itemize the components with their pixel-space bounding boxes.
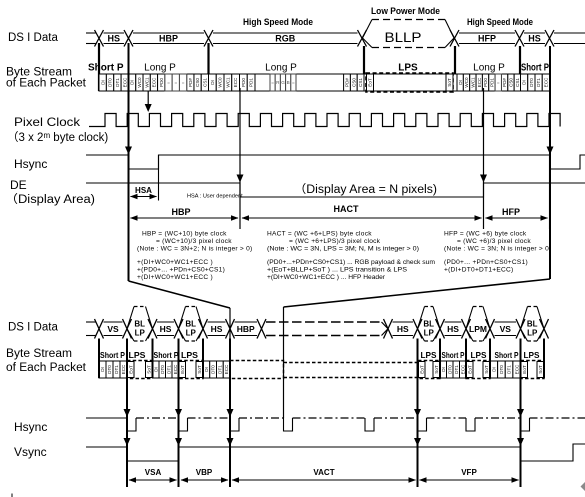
VACT measurement arrow: [232, 479, 416, 481]
svg-text:HBP: HBP: [237, 324, 255, 334]
svg-text:CS0: CS0: [509, 78, 514, 87]
bus crossover X4: [358, 30, 367, 47]
svg-text:DI: DI: [153, 367, 158, 372]
svg-text:(PD0+...+PDn+CS0+CS1) ... RGB: (PD0+...+PDn+CS0+CS1) ... RGB payload & …: [267, 259, 436, 266]
svg-text:HFP = (WC +6) byte clock: HFP = (WC +6) byte clock: [444, 231, 527, 238]
svg-text:+(EoT+BLLP+SoT ) ... LPS trans: +(EoT+BLLP+SoT ) ... LPS transition & LP…: [267, 267, 408, 274]
bus segment HS (lower 3): [393, 321, 414, 323]
svg-text:HFP: HFP: [502, 207, 520, 217]
svg-text:DT1: DT1: [536, 78, 541, 87]
bus segment HS (lower 2): [208, 321, 226, 323]
svg-text:ECC: ECC: [122, 77, 127, 87]
svg-text:ECC: ECC: [543, 77, 548, 87]
svg-text:PD0: PD0: [483, 78, 488, 87]
svg-text:CS1: CS1: [358, 78, 363, 87]
bus segment HS (lower 1): [157, 321, 174, 323]
svg-text:SoT: SoT: [146, 365, 151, 374]
byte stream row 2 cells: [99, 361, 106, 378]
svg-text:LPS: LPS: [524, 351, 541, 360]
svg-text:EoT: EoT: [522, 365, 527, 374]
svg-text:ECC: ECC: [233, 77, 238, 87]
wire measurement vertical x=417.5 (VFP start): [417, 339, 419, 488]
svg-text:PD0: PD0: [241, 78, 246, 87]
wire HSA right tick x=158.5: [158, 155, 160, 201]
bus2 crossover 127: [123, 319, 132, 339]
svg-text:PD#: PD#: [188, 78, 193, 87]
svg-text:DI: DI: [204, 367, 209, 372]
svg-text:(PD0+... +PDn+CS0+CS1): (PD0+... +PDn+CS0+CS1): [444, 259, 528, 266]
bus crossover X1: [95, 30, 104, 47]
wire bus2 vertical x=203: [202, 339, 204, 379]
svg-text:=: =: [182, 80, 185, 85]
svg-text:EoT: EoT: [467, 365, 472, 374]
bus stub left (upper): [86, 32, 96, 34]
svg-text:+(PD0+... +PDn+CS0+CS1): +(PD0+... +PDn+CS0+CS1): [137, 267, 225, 274]
svg-text:DS I Data: DS I Data: [8, 32, 58, 44]
svg-text:LP: LP: [527, 328, 538, 337]
svg-text:HS: HS: [211, 324, 223, 334]
svg-text:BL: BL: [423, 319, 434, 328]
bus2 crossover 520.5: [516, 319, 525, 339]
svg-text:=: =: [292, 80, 295, 85]
svg-text:VFP: VFP: [461, 468, 477, 477]
svg-text:Short P: Short P: [88, 63, 124, 74]
wire bus2 vertical x=544: [543, 339, 545, 379]
svg-text:EoT: EoT: [180, 365, 185, 374]
wire packet boundary x=550 (to funnel): [549, 46, 551, 279]
svg-text:Hsync: Hsync: [14, 420, 47, 434]
svg-text:DE: DE: [10, 178, 27, 192]
svg-text:+(DI+WC0+WC1+ECC ) ... HFP Hea: +(DI+WC0+WC1+ECC ) ... HFP Header: [267, 274, 386, 281]
svg-text:ECC: ECC: [477, 77, 482, 87]
HACT measurement arrow: [242, 217, 482, 219]
svg-text:= (WC +6+LPS)/3 pixel clock: = (WC +6+LPS)/3 pixel clock: [289, 238, 381, 245]
wire bus2 vertical x=152.5: [152, 339, 154, 379]
cell EoT (upper LPS): [367, 74, 374, 91]
svg-text:DI: DI: [441, 367, 446, 372]
svg-text:VBP: VBP: [196, 468, 213, 477]
bus2 crossover 490: [486, 319, 495, 339]
bus2 crossover 178.5: [174, 319, 183, 339]
bus2 crossover 388: [384, 319, 393, 339]
svg-text:PD#: PD#: [345, 78, 350, 87]
bus crossover X3: [204, 30, 213, 47]
funnel right diagonal: [284, 279, 551, 307]
svg-text:PD1: PD1: [249, 78, 254, 87]
VBP measurement arrow: [181, 479, 228, 481]
bus crossover X6: [515, 30, 524, 47]
svg-text:SoT: SoT: [197, 365, 202, 374]
wire measurement vertical x=178.5 (VSA end): [178, 339, 180, 488]
svg-text:= (WC +6)/3 pixel clock: = (WC +6)/3 pixel clock: [457, 238, 531, 245]
svg-text:=: =: [167, 80, 170, 85]
bus segment BL LP (4): [521, 307, 528, 342]
svg-text:Short P: Short P: [100, 351, 125, 360]
svg-text:BL: BL: [527, 319, 538, 328]
HFP measurement arrow: [486, 217, 548, 219]
svg-text:BL: BL: [134, 319, 145, 328]
svg-text:HBP: HBP: [159, 33, 178, 43]
svg-text:SoT: SoT: [434, 365, 439, 374]
bus2 crossover 230: [226, 319, 235, 339]
svg-text:HSA : User dependent: HSA : User dependent: [187, 194, 243, 200]
bus segment HS (lower 4): [445, 321, 462, 323]
HSA measurement arrow: [131, 196, 157, 198]
pixel clock waveform: [89, 114, 560, 127]
svg-text:DT0: DT0: [160, 365, 165, 374]
svg-text:B: B: [287, 80, 290, 85]
svg-text:HS: HS: [107, 33, 120, 43]
svg-text:ECC: ECC: [460, 364, 465, 374]
bus open section (dashed continuation): [266, 321, 382, 323]
svg-text:PD0: PD0: [159, 78, 164, 87]
svg-text:HS: HS: [397, 324, 409, 334]
svg-text:=: =: [497, 80, 500, 85]
svg-text:DT0: DT0: [529, 78, 534, 87]
bus2 crossover 440: [436, 319, 445, 339]
wire packet boundary x=455: [454, 46, 456, 74]
byte stream row 1 cells: [99, 74, 550, 91]
svg-text:Long P: Long P: [473, 63, 505, 74]
svg-text:Short P: Short P: [442, 351, 465, 360]
svg-text:of Each Packet: of Each Packet: [6, 362, 87, 374]
svg-text:WC0: WC0: [137, 77, 142, 88]
svg-text:DT0: DT0: [499, 365, 504, 374]
svg-text:WC1: WC1: [225, 77, 230, 88]
Hsync waveform (upper): [86, 155, 585, 169]
DE waveform: [86, 183, 585, 197]
svg-text:DT0: DT0: [447, 365, 452, 374]
svg-text:(Note : WC = 3N+2; N is integ: (Note : WC = 3N+2; N is integer > 0): [137, 246, 252, 253]
svg-text:+(DI+WC0+WC1+ECC ): +(DI+WC0+WC1+ECC ): [137, 259, 213, 266]
Hsync waveform (lower): [86, 417, 127, 419]
svg-text:HBP: HBP: [171, 207, 190, 217]
svg-text:DI: DI: [130, 80, 135, 85]
svg-text:HS: HS: [160, 324, 172, 334]
svg-text:LPM: LPM: [469, 324, 487, 334]
wire packet boundary x=364: [363, 46, 365, 74]
svg-text:DI: DI: [100, 367, 105, 372]
svg-text:Low Power Mode: Low Power Mode: [371, 6, 440, 16]
svg-text:HBP = (WC+10) byte clock: HBP = (WC+10) byte clock: [142, 231, 227, 238]
decorative gray cursor bottom right: [581, 482, 585, 492]
svg-text:DI: DI: [491, 367, 496, 372]
wire bus2 vertical x=466: [465, 339, 467, 379]
svg-text:DI: DI: [210, 80, 215, 85]
svg-text:HS: HS: [447, 324, 459, 334]
wire packet boundary x=208.5: [207, 43, 209, 74]
wire byte-to-clock arrow x=148: [147, 91, 149, 104]
svg-text:Pixel Clock: Pixel Clock: [14, 115, 81, 129]
bus segment RGB: [213, 32, 358, 34]
svg-text:DS I Data: DS I Data: [8, 322, 58, 334]
svg-text:DT0: DT0: [108, 78, 113, 87]
svg-text:HS: HS: [528, 33, 541, 43]
bus segment BLLP: [363, 20, 455, 48]
svg-text:DT1: DT1: [217, 365, 222, 374]
svg-text:WC1: WC1: [144, 77, 149, 88]
wire measurement vertical x=230 (VACT start): [229, 339, 231, 488]
VSA measurement arrow: [129, 479, 177, 481]
bus segment LPM: [466, 307, 473, 342]
svg-text:WC1: WC1: [470, 77, 475, 88]
bus2 crossover 152.5: [148, 319, 157, 339]
svg-text:HSA: HSA: [135, 186, 152, 195]
svg-text:VACT: VACT: [313, 468, 334, 477]
svg-text:ECC: ECC: [173, 364, 178, 374]
svg-text:HACT = (WC +6+LPS) byte clock: HACT = (WC +6+LPS) byte clock: [267, 231, 372, 238]
svg-text:+(DI+DT0+DT1+ECC): +(DI+DT0+DT1+ECC): [444, 267, 513, 274]
arrowhead onto Hsync at x=128.5: [125, 147, 132, 155]
svg-text:+(DI+WC0+WC1+ECC ): +(DI+WC0+WC1+ECC ): [137, 274, 213, 281]
bus segment BL LP (2): [179, 307, 186, 342]
svg-text:CS1: CS1: [515, 78, 520, 87]
wire bus2 vertical x=440: [439, 339, 441, 379]
wire packet boundary x=99: [98, 43, 100, 91]
svg-text:LPS: LPS: [181, 351, 199, 360]
svg-text:= (WC+10)/3 pixel clock: = (WC+10)/3 pixel clock: [156, 238, 232, 245]
svg-text:EoT: EoT: [368, 78, 373, 87]
wire packet boundary x=520: [519, 46, 521, 74]
wire measurement vertical x=483.5: [483, 88, 485, 229]
bus2 crossover 261.5: [257, 319, 266, 339]
svg-text:CS0: CS0: [195, 78, 200, 87]
svg-text:LP: LP: [424, 328, 435, 337]
svg-text:DI: DI: [100, 80, 105, 85]
svg-text:HACT: HACT: [334, 204, 359, 214]
svg-text:DT1: DT1: [115, 78, 120, 87]
svg-text:EoT: EoT: [128, 365, 133, 374]
bus segment HBP: [133, 32, 204, 34]
svg-text:LP: LP: [186, 328, 197, 337]
Vsync waveform: [86, 444, 585, 461]
LPS dashed box (upper): [366, 73, 453, 92]
arrowhead onto DE at x=240: [237, 175, 244, 183]
svg-text:DT1: DT1: [114, 365, 119, 374]
bus2 crossover 466: [462, 319, 471, 339]
bus segment HS (second): [524, 32, 545, 34]
bus stub left (lower): [86, 321, 96, 323]
bus crossover X2: [124, 30, 133, 47]
svg-text:CS1: CS1: [202, 78, 207, 87]
VFP measurement arrow: [420, 479, 519, 481]
bus crossover X7: [545, 30, 554, 47]
svg-text:G: G: [281, 80, 285, 85]
svg-text:SoT: SoT: [484, 365, 489, 374]
wire bus2 vertical x=490: [489, 339, 491, 379]
bus crossover X5: [450, 30, 459, 47]
svg-text:DT0: DT0: [107, 365, 112, 374]
wire packet boundary x=128.5 (to funnel): [128, 43, 130, 281]
bus2 crossover 99: [95, 319, 104, 339]
wire packet boundary x=128.5 overlay through byte row: [128, 74, 130, 91]
svg-text:LPS: LPS: [398, 63, 418, 74]
svg-text:ECC: ECC: [514, 364, 519, 374]
svg-text:ECC: ECC: [224, 364, 229, 374]
decorative tick bottom left: [11, 494, 13, 497]
svg-text:PD#: PD#: [502, 78, 507, 87]
bus segment BL LP (3): [418, 307, 425, 342]
wire measurement vertical x=127 (VSA start): [126, 339, 128, 488]
svg-text:PD1: PD1: [490, 78, 495, 87]
bus stub right (upper): [554, 32, 585, 34]
svg-text:LPS: LPS: [129, 351, 147, 360]
bus segment VS (first): [104, 321, 123, 323]
svg-text:DT0: DT0: [211, 365, 216, 374]
svg-text:Hsync: Hsync: [14, 157, 47, 171]
cell SoT (upper LPS): [446, 74, 453, 91]
svg-text:=: =: [174, 80, 177, 85]
svg-text:ECC: ECC: [152, 77, 157, 87]
svg-text:RGB: RGB: [275, 33, 296, 43]
bus2 crossover 417.5: [413, 319, 422, 339]
svg-text:（Display Area): （Display Area): [5, 193, 95, 206]
svg-text:VSA: VSA: [145, 468, 162, 477]
svg-text:DI: DI: [522, 80, 527, 85]
svg-text:VS: VS: [107, 324, 119, 334]
wire measurement vertical x=240: [239, 88, 241, 229]
funnel left diagonal: [129, 281, 231, 308]
HBP measurement arrow: [131, 217, 239, 219]
svg-text:(Note : WC = 3N, LPS = 3M; N,: (Note : WC = 3N, LPS = 3M; N, M is integ…: [267, 246, 419, 253]
svg-text:DI: DI: [458, 80, 463, 85]
wire measurement vertical x=520.5 (VFP end): [520, 339, 522, 488]
svg-text:WC0: WC0: [464, 77, 469, 88]
svg-text:Short P: Short P: [521, 63, 549, 74]
svg-text:WC0: WC0: [218, 77, 223, 88]
svg-text:DT1: DT1: [454, 365, 459, 374]
svg-text:Long P: Long P: [265, 63, 297, 74]
svg-text:Short P: Short P: [154, 351, 179, 360]
bus segment HBP (lower): [235, 321, 258, 323]
svg-text:HFP: HFP: [478, 33, 496, 43]
svg-text:Byte Stream: Byte Stream: [6, 348, 72, 360]
svg-text:CS0: CS0: [351, 78, 356, 87]
svg-text:(Note : WC = 3N; N is integer: (Note : WC = 3N; N is integer > 0): [444, 246, 551, 253]
arrowhead onto Hsync at x=550: [547, 147, 554, 155]
svg-text:LPS: LPS: [471, 351, 488, 360]
svg-text:（Display Area = N pixels): （Display Area = N pixels): [294, 183, 437, 196]
wire funnel tick x=283.5: [283, 307, 285, 418]
svg-text:SoT: SoT: [538, 365, 543, 374]
svg-text:Long P: Long P: [144, 63, 176, 74]
svg-text:DT1: DT1: [166, 365, 171, 374]
bus segment HS (first): [104, 32, 125, 34]
svg-text:ECC: ECC: [121, 364, 126, 374]
svg-text:（3 x 2m byte clock): （3 x 2m byte clock): [7, 131, 108, 144]
svg-text:VS: VS: [500, 324, 512, 334]
svg-text:High Speed Mode: High Speed Mode: [243, 17, 313, 27]
svg-text:LPS: LPS: [421, 351, 438, 360]
svg-text:High Speed Mode: High Speed Mode: [467, 17, 533, 27]
svg-text:BL: BL: [185, 319, 196, 328]
bus2 crossover 203: [199, 319, 208, 339]
svg-text:SoT: SoT: [447, 78, 452, 87]
wire measurement vertical x=549.5 lower part: [549, 155, 551, 229]
bus2 crossover 544: [540, 319, 549, 339]
svg-text:BLLP: BLLP: [385, 30, 422, 45]
svg-text:DT1: DT1: [507, 365, 512, 374]
svg-text:=: =: [271, 80, 274, 85]
bus segment BL LP (1): [127, 307, 134, 342]
bus segment HFP: [459, 32, 515, 34]
svg-text:EoT: EoT: [419, 365, 424, 374]
bus segment VS (second): [495, 321, 517, 323]
arrowhead onto DE at x=483.5: [480, 175, 487, 183]
svg-text:Short P: Short P: [495, 351, 519, 360]
wire bus2 vertical x=99: [98, 339, 100, 379]
svg-text:Vsync: Vsync: [14, 445, 47, 459]
svg-text:LP: LP: [135, 328, 146, 337]
wire funnel tick x=230 upper: [229, 308, 231, 339]
svg-text:of Each Packet: of Each Packet: [6, 78, 87, 90]
